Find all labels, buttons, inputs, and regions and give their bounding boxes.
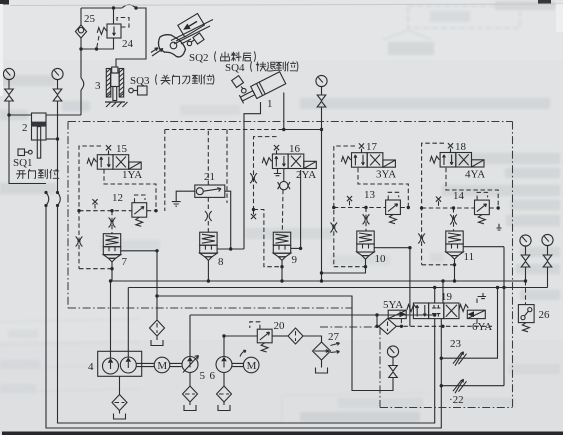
cart7 bottom bbox=[111, 262, 113, 281]
svg-text:15: 15 bbox=[116, 143, 128, 155]
suction pump4 bbox=[119, 376, 121, 395]
svg-text:3YA: 3YA bbox=[376, 169, 396, 181]
motor M2 bbox=[243, 357, 259, 373]
outer rail bbox=[46, 206, 441, 429]
valve15 pilot A-port bbox=[104, 169, 156, 211]
right solenoid bbox=[467, 310, 485, 318]
valve16 drain tank bbox=[274, 169, 281, 176]
motor M1 bbox=[154, 357, 170, 373]
suction filter pump6 bbox=[217, 386, 232, 402]
svg-text:4: 4 bbox=[88, 361, 94, 373]
line to filter bbox=[272, 335, 288, 337]
hose arc on inner rail bbox=[58, 193, 61, 206]
shaft M-5 bbox=[170, 363, 182, 366]
svg-text:·22: ·22 bbox=[449, 394, 464, 406]
top bus with hop bbox=[81, 5, 146, 67]
x plug stub bbox=[94, 204, 96, 211]
svg-text:26: 26 bbox=[539, 309, 551, 321]
line to cooler bbox=[303, 336, 322, 342]
svg-text:5YA: 5YA bbox=[383, 299, 403, 311]
shutoff valve under G2 bbox=[53, 89, 62, 101]
svg-text:6YA: 6YA bbox=[472, 321, 492, 333]
pressure gauge G2 bbox=[52, 68, 63, 79]
hose arc x81 bbox=[81, 78, 84, 90]
shutoff valve under G5 bbox=[389, 366, 398, 378]
dashed box v15 bbox=[79, 146, 101, 269]
throttle 23 branch bbox=[441, 288, 497, 359]
risers pump4 bbox=[110, 281, 112, 358]
svg-text:23: 23 bbox=[450, 338, 462, 350]
wire G1 down to corner and right bbox=[9, 101, 46, 184]
shutoff valve under G1 bbox=[5, 89, 14, 101]
wire G1 stem bbox=[8, 80, 10, 89]
bus C bbox=[157, 296, 393, 391]
cartridge valve 8 body bbox=[200, 232, 217, 260]
reducing valve 12 body bbox=[132, 203, 147, 227]
cylinder C3 piston bbox=[111, 73, 120, 87]
tank pump5 bbox=[184, 405, 196, 411]
pressure gauge G5 bbox=[387, 346, 398, 357]
pressure gauge G1 bbox=[3, 68, 14, 79]
pressure gauge G3 bbox=[520, 235, 531, 246]
svg-text:14: 14 bbox=[453, 190, 465, 202]
sq2 closed center bbox=[432, 305, 440, 317]
开门到位 bbox=[16, 171, 25, 179]
wire manifold feed y=115 bbox=[9, 114, 81, 116]
tank return filter bbox=[151, 340, 163, 346]
pilot filter bbox=[379, 319, 397, 335]
cam follower body bbox=[158, 35, 185, 57]
svg-text:SQ3: SQ3 bbox=[130, 75, 150, 87]
relief valve 24 bbox=[107, 24, 121, 38]
cartridge valve 9 body bbox=[273, 232, 290, 260]
throttle on v18 pilot edge bbox=[418, 234, 425, 244]
solid bus cyl1 head to riser bbox=[284, 129, 322, 131]
suction pump5 bbox=[189, 373, 191, 387]
svg-text:SQ1: SQ1 bbox=[13, 157, 33, 169]
node on G1 line bbox=[7, 113, 10, 116]
pressure switch 26 bbox=[525, 281, 527, 305]
check valve 25 bbox=[75, 25, 86, 38]
cart10 right port bbox=[374, 247, 410, 249]
drain L right bbox=[497, 224, 502, 230]
label SQ3 bbox=[0, 0, 1, 1]
tank pump4 bbox=[114, 414, 126, 420]
return filter bbox=[150, 320, 165, 336]
svg-text:9: 9 bbox=[292, 254, 298, 266]
pressure gauge G6 bbox=[316, 75, 327, 86]
label SQ4 bbox=[0, 0, 1, 1]
svg-text:25: 25 bbox=[84, 13, 96, 25]
pilot dashed under valve19 bbox=[396, 325, 492, 327]
cart11 right port bbox=[463, 246, 504, 248]
throttle on cart7 pilot bbox=[109, 218, 116, 228]
svg-text:16: 16 bbox=[289, 143, 301, 155]
svg-text:2YA: 2YA bbox=[296, 169, 316, 181]
suction filter pump5 bbox=[183, 386, 198, 402]
cartridge valve 11 body bbox=[446, 231, 463, 259]
bus E pump5 bbox=[190, 314, 435, 316]
wire G2 stem bbox=[57, 80, 59, 89]
svg-text:24: 24 bbox=[122, 38, 134, 50]
pump 4b bbox=[120, 357, 136, 373]
pump 4a bbox=[103, 358, 119, 374]
cylinder C3 rod bbox=[113, 87, 117, 101]
solenoid valve 15 bbox=[87, 155, 141, 170]
cylinder C2 rod bbox=[37, 127, 40, 159]
sq1 arrows bbox=[416, 305, 426, 317]
svg-text:18: 18 bbox=[455, 141, 467, 153]
suction pump6 bbox=[223, 373, 225, 387]
pump unit 4 box bbox=[98, 351, 142, 376]
shutoff valve under G4 bbox=[543, 255, 552, 267]
node bbox=[56, 137, 59, 140]
cart9 right port bbox=[291, 247, 301, 249]
cylinder C3 left wall bbox=[106, 69, 111, 98]
cam arrows bbox=[151, 48, 163, 56]
switch SQ1 symbol bbox=[18, 149, 25, 156]
solenoid valve 18 bbox=[430, 153, 484, 168]
cylinder C3 right wall bbox=[119, 69, 124, 98]
bus B bbox=[128, 287, 547, 289]
relief valve 20 bbox=[257, 329, 272, 343]
shaft 4b-M bbox=[136, 363, 154, 366]
throttle on v17 pilot edge bbox=[330, 223, 337, 233]
label 开门到位 bbox=[0, 0, 1, 1]
solenoid valve 16 bbox=[262, 154, 316, 169]
svg-text:11: 11 bbox=[464, 251, 475, 263]
suction filter pump4 bbox=[112, 395, 127, 411]
svg-text:8: 8 bbox=[218, 256, 224, 268]
wire G6 riser to bus bbox=[321, 107, 323, 281]
cart7 right port bbox=[121, 250, 157, 252]
valve24 pilot dashes bbox=[117, 18, 129, 28]
cart9 bottom bbox=[281, 260, 283, 281]
svg-text:SQ2: SQ2 bbox=[189, 52, 209, 64]
valve21 drain left bbox=[176, 191, 195, 201]
label SQ2 bbox=[0, 0, 1, 1]
shutoff valve under G3 bbox=[521, 255, 530, 267]
cartridge valve 7 body bbox=[103, 234, 120, 262]
sq3 X bbox=[446, 305, 457, 317]
svg-text:20: 20 bbox=[274, 320, 286, 332]
switch SQ3 symbol bbox=[129, 88, 134, 93]
valve21 ports dashed bbox=[207, 130, 209, 186]
throttle on cart11 pilot bbox=[450, 215, 457, 225]
valve16 dashed box bbox=[254, 137, 277, 210]
wire check valve riser bbox=[80, 8, 82, 78]
valve19 riser B bbox=[442, 281, 444, 303]
throttle valve 23 bbox=[453, 352, 467, 366]
svg-text:10: 10 bbox=[375, 253, 387, 265]
throttle valve 22 bbox=[453, 379, 467, 393]
filter after valve20 bbox=[288, 328, 303, 344]
cam hole bbox=[170, 42, 177, 49]
cylinder 1 piston bbox=[256, 82, 265, 95]
svg-text:1YA: 1YA bbox=[122, 169, 142, 181]
svg-text:27: 27 bbox=[328, 331, 340, 343]
svg-text:5: 5 bbox=[200, 370, 206, 382]
cooler to tank bbox=[321, 360, 323, 368]
cylinder 1 rod bbox=[240, 91, 254, 101]
left solenoid bbox=[388, 310, 406, 318]
ground under C3 bbox=[105, 101, 125, 103]
wire cyl1 rod-end port bbox=[244, 102, 261, 249]
valve19 riser A bbox=[434, 288, 436, 304]
cylinder C3 neck bbox=[112, 67, 118, 73]
valve24 drain down bbox=[81, 38, 114, 49]
valve19 drain top right bbox=[477, 297, 482, 304]
cylinder C2 piston bbox=[32, 122, 47, 127]
cylinder C2 body bbox=[32, 113, 47, 140]
throttle on valve21 pilot bbox=[205, 211, 212, 221]
inner rail bbox=[58, 206, 435, 424]
cart8 right port bbox=[217, 248, 244, 250]
wire G2 down left rail top bbox=[57, 101, 59, 193]
cart8 bottom bbox=[207, 260, 209, 281]
hose arc on outer rail bbox=[46, 193, 49, 206]
throttle on valve16 pilot edge bbox=[250, 173, 257, 183]
svg-text:SQ4: SQ4 bbox=[225, 62, 245, 74]
svg-text:4YA: 4YA bbox=[465, 169, 485, 181]
wire cyl1 head-end port bbox=[283, 93, 285, 130]
cart10 bottom bbox=[322, 259, 366, 273]
bus A bbox=[111, 280, 526, 282]
svg-text:2: 2 bbox=[22, 122, 28, 134]
cart11 bottom bbox=[454, 259, 456, 281]
switch SQ4 roller bbox=[232, 76, 244, 88]
pilot bus y210.7 bbox=[79, 210, 156, 212]
svg-text:1: 1 bbox=[267, 98, 273, 110]
valve 21 bbox=[195, 185, 225, 197]
shutoff valve under G6 bbox=[317, 95, 326, 107]
return filter mid bbox=[156, 296, 158, 321]
throttle on pilot edge bbox=[76, 237, 83, 247]
svg-text:19: 19 bbox=[441, 291, 453, 303]
solenoid valve 17 bbox=[341, 153, 395, 168]
pressure gauge G4 bbox=[542, 234, 553, 245]
svg-text:6: 6 bbox=[210, 370, 216, 382]
pump 6 bbox=[216, 357, 232, 373]
valve16 bottom to pilot check bbox=[283, 169, 285, 182]
reducing valve 14 body bbox=[475, 200, 490, 224]
cooler 27 bbox=[313, 342, 331, 360]
label texts with CJK bbox=[16, 52, 298, 179]
tank cooler outlet bbox=[316, 368, 328, 374]
svg-text:3: 3 bbox=[95, 80, 101, 92]
throttle on cart10 pilot bbox=[363, 214, 370, 224]
cartridge valve 10 body bbox=[357, 231, 374, 259]
pilot down to cart7 bbox=[111, 211, 113, 234]
slide rails bbox=[171, 20, 213, 45]
valve21 output bbox=[225, 191, 231, 249]
svg-text:21: 21 bbox=[204, 171, 215, 183]
svg-text:13: 13 bbox=[364, 189, 376, 201]
throttle 22 branch bbox=[441, 385, 504, 387]
dashed bus y129.5 bbox=[165, 129, 284, 131]
body squares bbox=[413, 303, 428, 319]
wire x81 down to y115 bbox=[80, 90, 82, 115]
svg-text:12: 12 bbox=[112, 192, 123, 204]
reducing valve 13 body bbox=[386, 200, 401, 224]
roller switch SQ2 bbox=[187, 41, 191, 45]
svg-text:7: 7 bbox=[122, 256, 128, 268]
svg-text:17: 17 bbox=[366, 141, 378, 153]
cylinder 1 body bbox=[251, 72, 286, 99]
wire C2 right port bbox=[46, 138, 58, 140]
shaft 6-M2 bbox=[232, 363, 243, 366]
riser pump5 bbox=[189, 315, 191, 356]
pump 5 bbox=[182, 357, 198, 373]
tank pump6 bbox=[218, 405, 230, 411]
valve24 riser bbox=[113, 8, 115, 24]
riser pump6 bbox=[223, 336, 225, 357]
slide block SQ2 bbox=[178, 14, 205, 37]
